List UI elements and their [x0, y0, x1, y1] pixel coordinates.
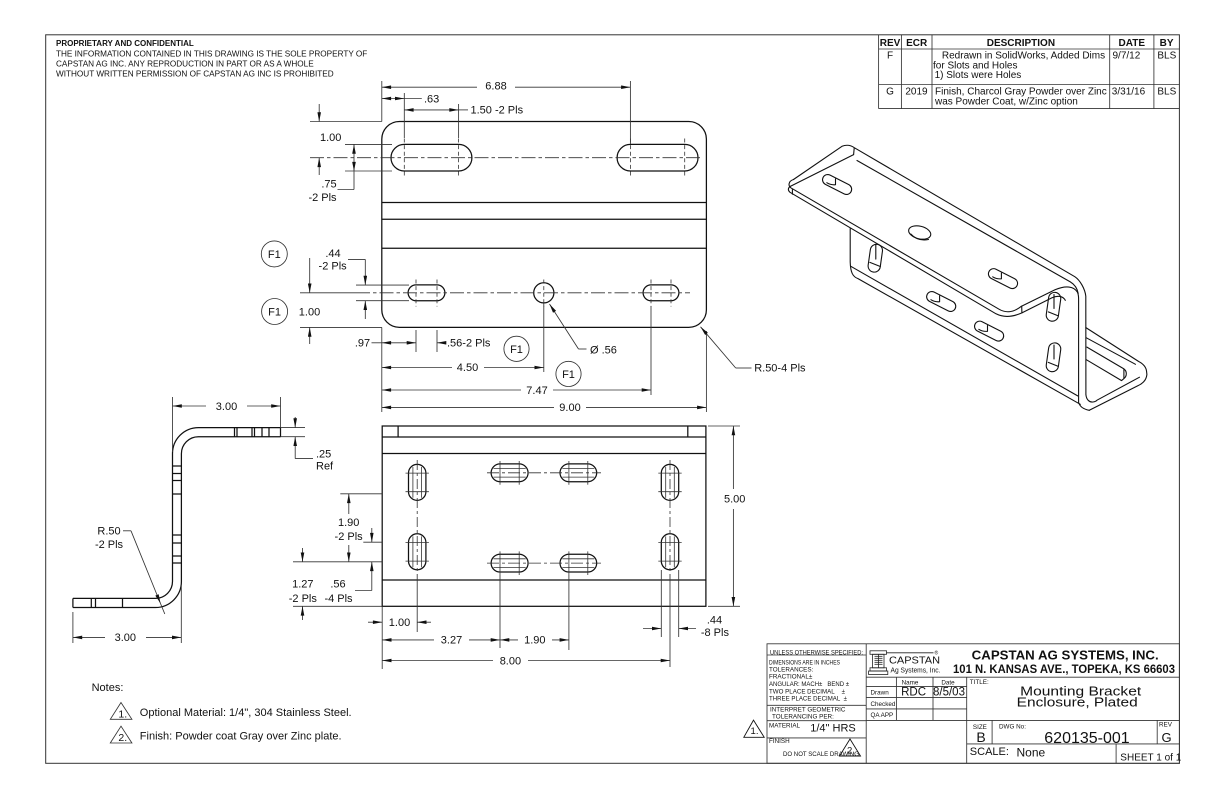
- svg-text:BY: BY: [1160, 38, 1174, 49]
- svg-text:4.50: 4.50: [457, 362, 478, 374]
- svg-text:TITLE:: TITLE:: [970, 679, 989, 686]
- svg-text:2019: 2019: [905, 87, 928, 98]
- svg-text:THREE PLACE DECIMAL ±: THREE PLACE DECIMAL ±: [769, 696, 848, 703]
- svg-text:1.00: 1.00: [389, 617, 410, 629]
- below-part ext lines: [381, 327, 383, 412]
- svg-text:.44: .44: [325, 248, 340, 260]
- svg-text:Enclosure, Plated: Enclosure, Plated: [1017, 695, 1138, 710]
- svg-text:7.47: 7.47: [526, 385, 547, 397]
- svg-text:Name: Name: [902, 680, 919, 687]
- svg-text:G: G: [1161, 730, 1171, 745]
- svg-text:ANGULAR: MACH± BEND ±: ANGULAR: MACH± BEND ±: [769, 681, 850, 688]
- R.50 leader: [701, 327, 736, 368]
- svg-text:RDC: RDC: [901, 687, 926, 699]
- svg-text:3/31/16: 3/31/16: [1112, 87, 1146, 98]
- svg-text:FRACTIONAL±: FRACTIONAL±: [769, 674, 813, 681]
- big slot 1: [391, 144, 472, 171]
- svg-text:F1: F1: [510, 344, 523, 356]
- dim 4.50: [382, 367, 452, 369]
- svg-text:None: None: [1017, 746, 1046, 760]
- svg-text:WITHOUT WRITTEN PERMISSION OF: WITHOUT WRITTEN PERMISSION OF CAPSTAN AG…: [56, 70, 334, 79]
- svg-text:DESCRIPTION: DESCRIPTION: [987, 38, 1055, 49]
- 3.27 / 1.90: [382, 639, 434, 641]
- dim 1.00 arrows: [318, 104, 320, 122]
- svg-text:2.: 2.: [118, 732, 127, 744]
- svg-text:TOLERANCING PER:: TOLERANCING PER:: [772, 713, 834, 720]
- svg-text:Optional Material: 1/4", 304 S: Optional Material: 1/4", 304 Stainless S…: [140, 707, 352, 719]
- dim 7.47: [382, 389, 521, 391]
- tall slot centerlines: [416, 460, 418, 574]
- svg-text:3.00: 3.00: [115, 632, 136, 644]
- centerline through big slots: [310, 157, 700, 159]
- 1.27: [302, 548, 304, 562]
- svg-text:1.00: 1.00: [299, 306, 320, 318]
- ticks leg: [173, 466, 182, 563]
- svg-text:Ref: Ref: [316, 461, 334, 473]
- svg-text:TWO PLACE DECIMAL ±: TWO PLACE DECIMAL ±: [769, 688, 846, 695]
- 1.90 -2 Pls: [348, 494, 350, 514]
- slot through-projection lines: [413, 467, 674, 567]
- 1.00: [368, 621, 382, 623]
- svg-text:was Powder Coat, w/Zinc option: was Powder Coat, w/Zinc option: [934, 97, 1078, 108]
- svg-text:.56-2 Pls: .56-2 Pls: [447, 338, 491, 350]
- svg-text:F1: F1: [268, 249, 281, 261]
- svg-text:UNLESS OTHERWISE SPECIFIED:: UNLESS OTHERWISE SPECIFIED:: [770, 649, 863, 656]
- svg-text:.97: .97: [355, 338, 370, 350]
- svg-text:-2 Pls: -2 Pls: [335, 531, 364, 543]
- svg-text:1.50 -2 Pls: 1.50 -2 Pls: [471, 105, 524, 117]
- svg-text:1/4" HRS: 1/4" HRS: [810, 723, 855, 735]
- svg-text:B: B: [976, 729, 985, 745]
- svg-text:-2 Pls: -2 Pls: [95, 539, 124, 551]
- svg-text:.44: .44: [707, 615, 722, 627]
- svg-text:-2 Pls: -2 Pls: [289, 593, 318, 605]
- small slot B: [643, 285, 679, 301]
- revision table: [879, 35, 1180, 109]
- svg-text:.75: .75: [321, 179, 336, 191]
- web tall slot R2: [1045, 342, 1061, 372]
- svg-text:1.90: 1.90: [524, 635, 545, 647]
- web mid slot M1: [925, 290, 958, 314]
- web mid slot M2: [973, 319, 1006, 343]
- svg-text:-8 Pls: -8 Pls: [701, 627, 730, 639]
- dim 3.00 bottom: [72, 612, 74, 643]
- svg-text:Ag Systems, Inc.: Ag Systems, Inc.: [891, 665, 941, 674]
- .56 -4 Pls: [371, 528, 373, 542]
- web left end + bottom outline: [850, 229, 1080, 405]
- svg-text:F: F: [887, 51, 893, 62]
- svg-text:.63: .63: [424, 93, 439, 105]
- material triangle 2: [840, 739, 861, 756]
- bottom flange tangent: [1086, 338, 1135, 365]
- svg-text:Notes:: Notes:: [92, 682, 124, 694]
- svg-text:6.88: 6.88: [485, 80, 506, 92]
- svg-text:DATE: DATE: [1119, 38, 1146, 49]
- svg-text:9/7/12: 9/7/12: [1113, 51, 1141, 62]
- svg-text:1.00: 1.00: [320, 132, 341, 144]
- proprietary notice: [56, 39, 367, 79]
- svg-text:INTERPRET GEOMETRIC: INTERPRET GEOMETRIC: [770, 706, 846, 713]
- svg-text:Date: Date: [941, 680, 955, 687]
- dim .63: [382, 98, 405, 100]
- bottom ext verticals: [381, 606, 383, 669]
- triangle 1 left of block: [744, 720, 764, 737]
- svg-text:8/5/03: 8/5/03: [933, 687, 965, 699]
- ticks flange top: [235, 428, 270, 437]
- svg-text:-2 Pls: -2 Pls: [319, 261, 348, 273]
- svg-text:REV: REV: [1159, 722, 1173, 729]
- svg-text:BLS: BLS: [1157, 51, 1176, 62]
- svg-text:F1: F1: [268, 307, 281, 319]
- dim .97 / .56: [372, 342, 382, 344]
- svg-text:TOLERANCES:: TOLERANCES:: [769, 667, 814, 674]
- left ext lines: [310, 121, 382, 123]
- dim .75: [353, 144, 355, 171]
- slot arc-center marks: [404, 139, 684, 178]
- part outline: [382, 122, 707, 328]
- plate slot 2: [987, 267, 1020, 291]
- svg-text:SHEET 1 of 1: SHEET 1 of 1: [1120, 753, 1181, 764]
- svg-text:R.50-4 Pls: R.50-4 Pls: [754, 363, 806, 375]
- svg-text:®: ®: [935, 650, 939, 657]
- bend lines: [382, 202, 707, 204]
- svg-text:Checked: Checked: [871, 701, 896, 708]
- svg-text:.56: .56: [330, 579, 345, 591]
- svg-text:620135-001: 620135-001: [1044, 730, 1130, 747]
- tall slot cross ticks: [406, 473, 682, 561]
- svg-text:8.00: 8.00: [500, 655, 521, 667]
- svg-text:FINISH: FINISH: [769, 738, 790, 745]
- plate hole: [907, 224, 932, 242]
- top bend tangent + right bend tangent: [857, 161, 1078, 294]
- svg-text:5.00: 5.00: [724, 494, 745, 506]
- tall slots: [409, 464, 426, 500]
- svg-text:1.27: 1.27: [292, 579, 313, 591]
- svg-text:9.00: 9.00: [559, 402, 580, 414]
- svg-text:THE INFORMATION CONTAINED IN T: THE INFORMATION CONTAINED IN THIS DRAWIN…: [56, 50, 367, 59]
- svg-text:1.: 1.: [118, 708, 127, 720]
- svg-text:1.: 1.: [751, 726, 759, 737]
- centerline through small slots: [356, 292, 690, 294]
- svg-text:CAPSTAN AG INC. ANY REPRODUCTI: CAPSTAN AG INC. ANY REPRODUCTION IN PART…: [56, 60, 314, 69]
- flange slot: [1086, 347, 1126, 381]
- dia leader: [550, 304, 579, 349]
- svg-text:ECR: ECR: [906, 38, 928, 49]
- flange silhouette: bottom edge + tip + far edge: [1086, 328, 1147, 411]
- 8.00: [382, 660, 493, 662]
- web bottom bend tangent: [851, 266, 1078, 396]
- R.50 leader: [123, 530, 131, 532]
- dim 9.00: [382, 406, 554, 408]
- svg-text:MATERIAL: MATERIAL: [769, 723, 801, 730]
- svg-text:DIMENSIONS ARE IN INCHES: DIMENSIONS ARE IN INCHES: [769, 660, 840, 667]
- plate near edge + near corner + end edge + hook + web right edge: [789, 180, 1089, 411]
- F1 balloons: [261, 241, 581, 387]
- svg-text:BLS: BLS: [1157, 87, 1176, 98]
- svg-text:PROPRIETARY AND CONFIDENTIAL: PROPRIETARY AND CONFIDENTIAL: [56, 39, 194, 48]
- dim 3.00 top: [172, 397, 174, 452]
- hole: [534, 283, 554, 303]
- dim .44 leader: [348, 258, 365, 260]
- ticks bottom flange: [91, 598, 122, 607]
- svg-text:2.: 2.: [847, 746, 855, 757]
- svg-text:DWG No:: DWG No:: [999, 724, 1026, 731]
- svg-text:1.90: 1.90: [338, 517, 359, 529]
- svg-text:REV: REV: [880, 38, 901, 49]
- plate far silhouette + right bend outer + flange near-top edge: [794, 145, 1140, 402]
- dim 1.50: [404, 109, 458, 111]
- svg-text:SCALE:: SCALE:: [970, 746, 1009, 758]
- plate thickness edges: [791, 190, 793, 195]
- svg-text:Finish: Powder coat Gray over: Finish: Powder coat Gray over Zinc plate…: [140, 731, 342, 743]
- svg-text:R.50: R.50: [97, 526, 120, 538]
- left ext lines: [340, 493, 382, 495]
- svg-text:-4 Pls: -4 Pls: [324, 593, 353, 605]
- svg-text:1) Slots were Holes: 1) Slots were Holes: [935, 70, 1022, 81]
- svg-text:CAPSTAN AG SYSTEMS, INC.: CAPSTAN AG SYSTEMS, INC.: [972, 647, 1159, 662]
- svg-text:Ø .56: Ø .56: [590, 345, 617, 357]
- web tall slot L1: [867, 243, 883, 272]
- extension lines top: [381, 81, 383, 122]
- svg-text:-2 Pls: -2 Pls: [308, 192, 337, 204]
- dim .25 Ref: [281, 427, 306, 429]
- big slot 2: [617, 144, 698, 171]
- svg-text:F1: F1: [562, 369, 575, 381]
- svg-text:3.00: 3.00: [216, 401, 237, 413]
- svg-text:101 N. KANSAS AVE., TOPEKA, KS: 101 N. KANSAS AVE., TOPEKA, KS 66603: [953, 664, 1175, 676]
- svg-text:G: G: [886, 87, 894, 98]
- horizontal slots: [491, 464, 528, 482]
- 5.00: [708, 425, 740, 427]
- dim 1.00 #2: [300, 292, 356, 294]
- small slot A: [408, 285, 445, 301]
- svg-text:3.27: 3.27: [441, 635, 462, 647]
- .44 -8 Pls: [643, 628, 661, 630]
- web tall slot R1: [1045, 292, 1061, 322]
- plate slot 1: [821, 173, 854, 197]
- logo: [869, 650, 941, 675]
- dim 6.88: [382, 86, 477, 88]
- svg-text:.25: .25: [316, 449, 331, 461]
- svg-text:Drawn: Drawn: [871, 690, 890, 697]
- svg-text:QA APP: QA APP: [871, 712, 894, 719]
